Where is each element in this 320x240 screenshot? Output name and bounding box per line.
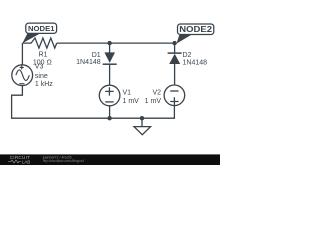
svg-text:R1: R1 (39, 52, 48, 59)
svg-text:V1: V1 (123, 90, 132, 97)
svg-text:V3: V3 (35, 63, 44, 70)
svg-text:1N4148: 1N4148 (183, 60, 208, 67)
svg-text:http://circuitlab.com/c/8bqynx: http://circuitlab.com/c/8bqynx4 (43, 159, 84, 163)
svg-text:1 mV: 1 mV (145, 98, 162, 105)
svg-text:NODE1: NODE1 (28, 24, 55, 33)
svg-text:D2: D2 (183, 52, 192, 59)
svg-text:V2: V2 (152, 90, 161, 97)
svg-text:LAB: LAB (22, 159, 31, 164)
svg-text:sine: sine (35, 73, 48, 80)
svg-text:1 kHz: 1 kHz (35, 81, 53, 88)
svg-text:1 mV: 1 mV (123, 98, 140, 105)
svg-text:D1: D1 (92, 52, 101, 59)
svg-text:NODE2: NODE2 (179, 25, 212, 34)
svg-text:1N4148: 1N4148 (76, 59, 101, 66)
